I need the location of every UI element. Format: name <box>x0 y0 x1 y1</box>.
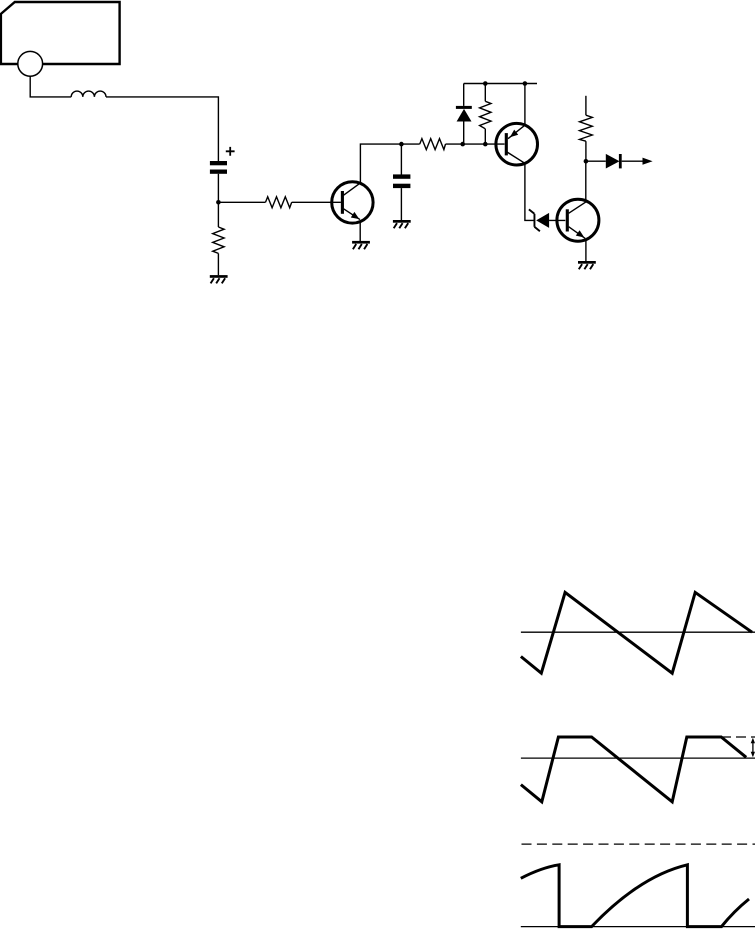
wire <box>400 144 402 174</box>
wire <box>622 160 643 162</box>
wire <box>524 84 526 126</box>
capacitor C1 <box>210 161 227 174</box>
magneto box <box>1 2 120 64</box>
delta arrow <box>751 738 755 758</box>
wire <box>446 143 505 145</box>
inductor L1 <box>71 91 106 97</box>
resistor R5 <box>580 115 593 141</box>
ground <box>393 220 411 228</box>
node C <box>460 142 465 147</box>
waveform 1 sawtooth <box>521 592 752 673</box>
node E <box>483 81 488 86</box>
wire <box>549 219 565 221</box>
wire <box>401 143 419 145</box>
diode D3 <box>606 154 622 169</box>
node A <box>216 200 221 205</box>
wire <box>360 144 401 184</box>
transistor Q2 <box>496 123 538 165</box>
waveform 2 axis <box>521 757 755 759</box>
wire <box>106 97 218 161</box>
ground <box>578 261 596 269</box>
capacitor C2 <box>393 174 410 188</box>
wire <box>217 174 219 227</box>
wire <box>484 129 486 144</box>
waveform 3 dashed peak level <box>522 843 755 845</box>
node D <box>483 142 488 147</box>
node F <box>523 81 528 86</box>
wire <box>400 188 402 220</box>
wire <box>525 163 534 220</box>
wire <box>585 141 587 161</box>
plus label <box>226 147 235 156</box>
wire <box>359 221 361 241</box>
generator circle <box>18 51 43 76</box>
wire stub <box>585 96 587 115</box>
output arrow <box>643 158 653 165</box>
node G <box>584 159 589 164</box>
waveform 1 axis <box>521 631 755 633</box>
wire <box>218 201 265 203</box>
diode D1 <box>456 106 472 122</box>
transistor Q1 <box>332 182 373 223</box>
clip level dashed <box>721 736 755 738</box>
wire <box>585 161 587 200</box>
resistor R3 <box>480 101 491 129</box>
wire <box>484 84 486 102</box>
ground <box>210 275 228 283</box>
wire <box>585 240 587 261</box>
ground <box>352 241 370 249</box>
node B <box>399 142 404 147</box>
wire <box>30 76 71 97</box>
wire <box>463 122 465 145</box>
transistor Q3 <box>557 199 599 241</box>
waveform 3 baseline <box>521 926 755 928</box>
wire <box>463 84 465 106</box>
wire <box>217 253 219 275</box>
resistor R1 <box>266 197 292 208</box>
wire <box>292 201 341 203</box>
wire <box>586 160 606 162</box>
waveform 3 sawtooth pulses <box>521 865 749 927</box>
resistor R4 <box>420 139 446 150</box>
resistor R2 <box>213 227 224 253</box>
top rail <box>464 83 537 85</box>
zener D2 <box>529 209 549 231</box>
waveform 2 clipped sawtooth <box>521 737 746 802</box>
